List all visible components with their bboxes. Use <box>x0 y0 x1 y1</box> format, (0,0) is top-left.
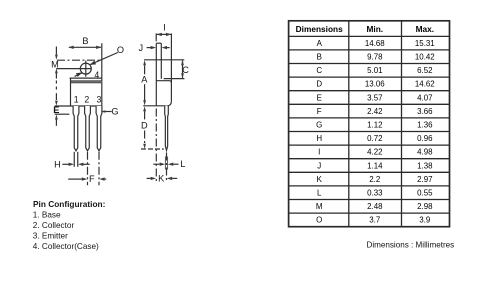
svg-text:2. Collector: 2. Collector <box>33 221 75 230</box>
svg-text:10.42: 10.42 <box>415 53 435 62</box>
svg-text:4.98: 4.98 <box>417 148 433 157</box>
svg-text:2.98: 2.98 <box>417 202 433 211</box>
side view tab <box>156 42 161 44</box>
table text <box>296 24 435 225</box>
svg-text:2.42: 2.42 <box>367 107 382 116</box>
front view centerline <box>57 59 101 61</box>
dimension M <box>55 47 57 55</box>
svg-text:B: B <box>317 53 322 62</box>
pin 2 <box>85 106 91 151</box>
side view lead <box>165 106 169 151</box>
pin 4 label <box>94 70 99 80</box>
svg-text:3.57: 3.57 <box>367 93 382 102</box>
svg-text:5.01: 5.01 <box>367 66 382 75</box>
svg-text:4. Collector(Case): 4. Collector(Case) <box>33 242 99 251</box>
svg-text:1.38: 1.38 <box>417 161 433 170</box>
svg-text:1.14: 1.14 <box>367 161 383 170</box>
svg-text:14.68: 14.68 <box>365 39 385 48</box>
svg-text:14.62: 14.62 <box>415 80 435 89</box>
dimension E <box>55 93 57 100</box>
svg-text:3.66: 3.66 <box>417 107 433 116</box>
svg-text:3.9: 3.9 <box>419 216 431 225</box>
svg-text:15.31: 15.31 <box>415 39 435 48</box>
svg-text:0.72: 0.72 <box>367 134 382 143</box>
dimension D <box>143 106 146 111</box>
svg-text:3.7: 3.7 <box>369 216 380 225</box>
svg-text:C: C <box>182 65 189 75</box>
svg-text:3. Emitter: 3. Emitter <box>33 232 68 241</box>
svg-text:Dimensions : Millimetres: Dimensions : Millimetres <box>367 240 455 249</box>
front body bottom edge <box>55 105 102 107</box>
dimensions table <box>289 21 450 227</box>
svg-text:L: L <box>317 189 322 198</box>
svg-text:K: K <box>317 175 323 184</box>
svg-text:H: H <box>54 159 61 169</box>
dimension O label and leader <box>117 45 124 55</box>
dimension C <box>182 61 184 79</box>
svg-text:4.22: 4.22 <box>367 148 382 157</box>
svg-text:M: M <box>51 59 59 69</box>
dimension A <box>143 60 146 65</box>
dimension H <box>73 152 75 167</box>
hole horizontal centerline <box>56 68 91 70</box>
side view: dimension I label <box>163 22 166 32</box>
svg-text:2.97: 2.97 <box>417 175 432 184</box>
dimension C bottom extension <box>164 78 185 80</box>
side body bottom with rounded corner <box>143 101 171 106</box>
svg-text:K: K <box>158 173 165 183</box>
svg-text:D: D <box>316 80 322 89</box>
svg-text:0.55: 0.55 <box>417 189 433 198</box>
svg-text:B: B <box>82 36 88 46</box>
pin 1 <box>73 106 79 151</box>
svg-text:1.12: 1.12 <box>367 121 382 130</box>
pin number labels 1 2 3 <box>74 95 102 105</box>
front view right edge <box>101 43 103 106</box>
svg-text:4.07: 4.07 <box>417 93 432 102</box>
dimension F <box>87 152 89 186</box>
front body left edge <box>70 78 72 106</box>
dimension B label <box>82 36 88 46</box>
units note <box>367 240 455 249</box>
svg-text:E: E <box>317 93 322 102</box>
svg-text:O: O <box>316 216 322 225</box>
svg-text:M: M <box>316 202 323 211</box>
svg-text:Dimensions: Dimensions <box>296 24 343 34</box>
side body step line <box>156 81 171 83</box>
dimension L <box>164 157 166 170</box>
svg-text:C: C <box>316 66 322 75</box>
lead centerline extension <box>166 153 168 182</box>
svg-text:H: H <box>316 134 322 143</box>
dimension I left extension <box>155 33 157 41</box>
svg-text:L: L <box>180 159 185 169</box>
dimension G <box>111 107 118 117</box>
svg-text:2.48: 2.48 <box>367 202 383 211</box>
svg-text:J: J <box>317 161 321 170</box>
svg-text:0.33: 0.33 <box>367 189 383 198</box>
svg-text:13.06: 13.06 <box>365 80 385 89</box>
svg-text:D: D <box>141 120 148 130</box>
svg-text:Min.: Min. <box>367 24 384 34</box>
pin configuration text <box>33 199 106 251</box>
svg-text:6.52: 6.52 <box>417 66 432 75</box>
svg-text:Max.: Max. <box>416 24 434 34</box>
svg-text:F: F <box>317 107 322 116</box>
svg-text:F: F <box>89 174 95 184</box>
side view right edge / extension <box>170 33 172 101</box>
svg-text:1.36: 1.36 <box>417 121 433 130</box>
svg-text:I: I <box>163 22 166 32</box>
side body top line <box>144 59 184 61</box>
shaded step band <box>70 81 102 83</box>
dimension J <box>139 43 144 53</box>
pin 3 <box>96 106 102 151</box>
svg-text:3: 3 <box>97 95 102 105</box>
dimension K left extension <box>155 109 157 182</box>
tab/body separator line <box>70 77 102 79</box>
svg-text:2.2: 2.2 <box>369 175 380 184</box>
svg-text:O: O <box>117 45 124 55</box>
svg-text:I: I <box>318 148 320 157</box>
svg-text:0.96: 0.96 <box>417 134 433 143</box>
svg-text:A: A <box>141 74 148 84</box>
mounting hole <box>80 63 91 74</box>
dimension I line <box>156 33 171 35</box>
svg-text:9.78: 9.78 <box>367 53 383 62</box>
svg-text:Pin Configuration:: Pin Configuration: <box>33 199 105 209</box>
dimension K <box>147 177 151 179</box>
svg-text:A: A <box>317 39 323 48</box>
dimension B line <box>69 46 101 48</box>
svg-text:G: G <box>316 121 322 130</box>
svg-text:G: G <box>111 107 118 117</box>
svg-text:2: 2 <box>84 95 89 105</box>
svg-text:1: 1 <box>74 95 79 105</box>
svg-text:1. Base: 1. Base <box>33 211 61 220</box>
svg-text:J: J <box>139 43 144 53</box>
dimension D bottom extension <box>141 148 164 150</box>
